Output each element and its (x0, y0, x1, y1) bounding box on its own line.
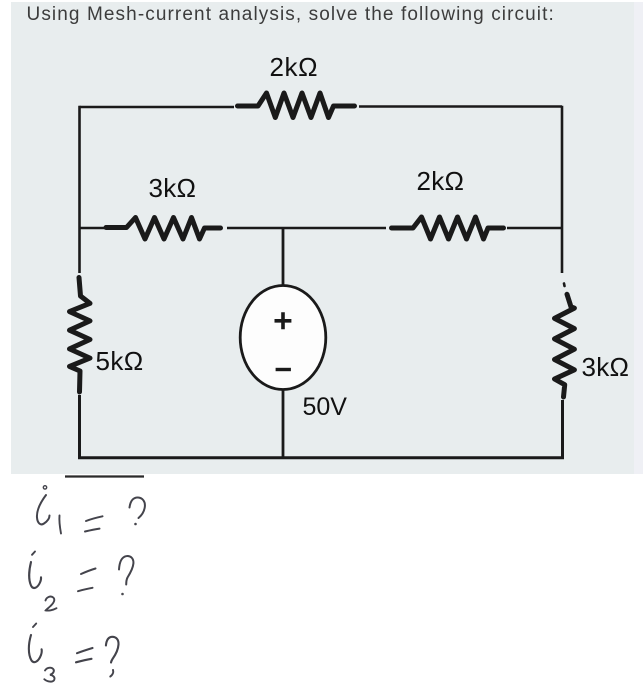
svg-text:Using Mesh-current analysis, s: Using Mesh-current analysis, solve the f… (27, 4, 555, 25)
grey slide background panel (11, 2, 634, 474)
resistor R-left 5k ohm (70, 278, 91, 393)
handwritten equals row2 (78, 569, 96, 592)
svg-text:50V: 50V (303, 393, 348, 421)
minus sign inside source (276, 368, 291, 371)
label 3k ohm right (582, 352, 630, 382)
svg-text:3kΩ: 3kΩ (582, 352, 630, 382)
wire: middle wire left stub (80, 227, 105, 230)
title text (27, 4, 555, 25)
wire: middle wire right segment (507, 227, 562, 230)
wire: top wire left segment (80, 106, 235, 109)
right pale strip (634, 2, 643, 474)
label 5k ohm (96, 346, 144, 376)
handwritten question row1 (130, 497, 145, 525)
handwritten equals row1 (85, 516, 103, 531)
resistor R-right 3k ohm (555, 294, 575, 397)
handwritten i2 (29, 552, 56, 611)
label 50V (303, 393, 348, 421)
wire: center branch upper (282, 228, 285, 287)
svg-text:3kΩ: 3kΩ (149, 173, 197, 203)
svg-text:2kΩ: 2kΩ (417, 166, 465, 196)
plus sign inside source (275, 312, 292, 329)
handwritten question row3 (106, 637, 119, 677)
label 3k ohm middle-left (149, 173, 197, 203)
svg-text:2kΩ: 2kΩ (270, 52, 319, 82)
underline mark below circuit (65, 475, 144, 477)
resistor R-mid-right 2k ohm (392, 217, 504, 239)
handwritten i1 (37, 486, 61, 534)
wire: top wire right segment (359, 105, 562, 108)
wire: center branch lower (282, 390, 285, 458)
wire: right vertical small tick (563, 284, 566, 287)
handwritten equals row3 (76, 648, 93, 662)
wire: right vertical wire upper (561, 106, 564, 273)
handwritten i3 (29, 624, 55, 682)
label 2k ohm middle-right (417, 166, 465, 196)
wire: middle wire center segment (227, 227, 386, 230)
resistor R-mid-left 3k ohm (106, 218, 221, 240)
voltage source V1 ellipse (240, 286, 326, 390)
svg-text:5kΩ: 5kΩ (96, 346, 144, 376)
wire: right vertical wire lower (283, 400, 563, 458)
wire: left vertical wire lower (80, 395, 284, 458)
handwritten question row2 (119, 556, 133, 595)
resistor R-top 2k ohm (238, 93, 355, 118)
label 2k ohm top (270, 52, 319, 82)
wire: left vertical wire upper (78, 106, 81, 273)
